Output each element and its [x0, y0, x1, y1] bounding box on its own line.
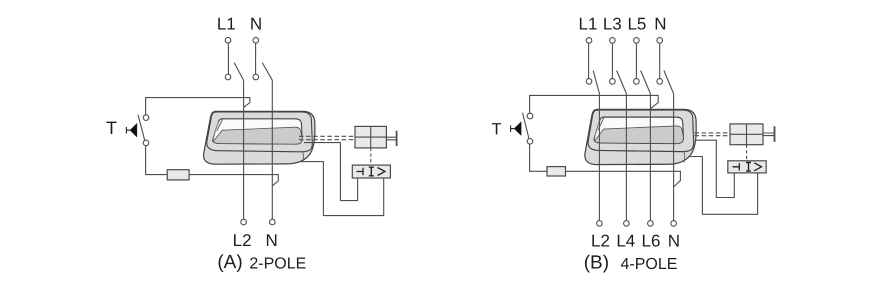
wire N terminal to contact: [255, 43, 257, 74]
terminal L6 bottom: [648, 221, 654, 227]
terminal N bottom (left): [270, 219, 276, 225]
svg-text:(B): (B): [584, 252, 609, 273]
svg-text:N: N: [654, 15, 666, 34]
terminal N top: [253, 37, 259, 43]
svg-text:T: T: [106, 118, 117, 138]
wire test button to resistor: [146, 146, 168, 175]
svg-text:L2: L2: [233, 231, 252, 250]
dashed link relay to trip unit (left): [370, 148, 372, 165]
wire N through core: [271, 80, 273, 219]
pole N (right): [657, 38, 674, 221]
secondary winding wire 1 (right): [688, 140, 734, 197]
pole L3 (right): [610, 38, 627, 221]
secondary winding wire 2 (right): [680, 157, 758, 215]
switch blade L1: [234, 63, 243, 81]
terminal L1 top: [225, 37, 231, 43]
test button blade: [138, 115, 145, 141]
terminal N bottom (right): [671, 221, 677, 227]
svg-text:L1: L1: [579, 15, 598, 34]
wire resistor to N tap with hook (right): [566, 171, 681, 187]
trip unit box (right): [728, 161, 766, 173]
dashed link core to relay (right): [695, 133, 731, 136]
trip unit box (left): [352, 165, 390, 178]
dashed link core to relay (left): [299, 136, 355, 139]
svg-text:L6: L6: [642, 232, 661, 251]
relay armature stubs and end bar (left): [386, 131, 396, 146]
svg-text:N: N: [250, 15, 262, 34]
test button bottom contact (right): [527, 139, 533, 145]
trip unit symbol dash-bar I chevron (left): [357, 167, 386, 176]
svg-text:L5: L5: [627, 15, 646, 34]
svg-text:L4: L4: [616, 232, 635, 251]
test button bottom contact: [143, 140, 149, 146]
trip relay box (left): [355, 126, 386, 147]
secondary winding wire 2 (left): [296, 162, 384, 216]
svg-text:4-POLE: 4-POLE: [621, 256, 678, 273]
switch blade N: [262, 63, 272, 81]
wire test button to resistor (right): [530, 144, 547, 171]
svg-text:N: N: [668, 232, 680, 251]
svg-text:(A): (A): [217, 252, 242, 273]
test button top contact: [143, 115, 149, 121]
test button blade (right): [523, 113, 529, 139]
svg-text:N: N: [266, 231, 278, 250]
wire resistor to N tap with hook: [189, 175, 278, 186]
dashed link relay to trip unit (right): [746, 145, 748, 161]
contact N: [253, 74, 259, 80]
resistor R (right): [547, 167, 566, 176]
relay armature stubs and end bar (right): [763, 126, 775, 142]
wire L1 through core: [243, 80, 245, 219]
wire test top rail with hook onto L5 (right): [530, 95, 659, 113]
terminal L4 bottom: [624, 221, 630, 227]
wire L1 terminal to contact: [227, 43, 229, 74]
wire test top rail with hook onto L1: [146, 98, 250, 115]
test button actuator (right): [511, 122, 521, 136]
test button top contact (right): [527, 113, 533, 119]
toroidal core CT (left): [204, 111, 315, 164]
resistor R (left): [167, 170, 189, 180]
pole L5 (right): [634, 38, 651, 221]
svg-text:L3: L3: [603, 15, 622, 34]
terminal L2 bottom: [241, 219, 247, 225]
terminal L2 bottom (right): [597, 221, 603, 227]
test button actuator (left): [126, 123, 136, 137]
secondary winding wire 1 (left): [304, 143, 358, 201]
svg-text:2-POLE: 2-POLE: [249, 255, 306, 272]
svg-text:T: T: [491, 121, 501, 139]
toroidal core CT (right): [585, 109, 696, 164]
svg-text:L1: L1: [217, 15, 236, 34]
trip relay box (right): [730, 124, 763, 145]
trip unit symbol dash-bar I chevron (right): [733, 163, 762, 172]
svg-text:L2: L2: [591, 232, 610, 251]
pole L1 (right): terminal, wire, contact, blade, through wire: [586, 38, 599, 221]
contact L1: [225, 74, 231, 80]
